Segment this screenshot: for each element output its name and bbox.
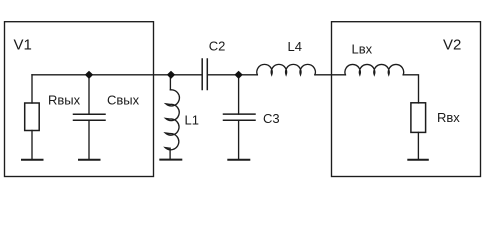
block V2	[332, 22, 481, 177]
resistor Rvx lead bottom	[417, 132, 419, 159]
svg-text:C2: C2	[209, 39, 226, 54]
svg-text:C3: C3	[263, 111, 280, 126]
svg-text:Cвых: Cвых	[107, 92, 140, 107]
capacitor C3 plates	[224, 114, 256, 120]
svg-text:Lвх: Lвх	[352, 42, 373, 57]
inductor L1 coil	[165, 90, 179, 150]
block V1	[5, 22, 154, 177]
inductor L4 coil	[257, 64, 316, 74]
svg-text:L1: L1	[185, 113, 199, 128]
resistor Rvyh body	[25, 103, 40, 131]
svg-text:L4: L4	[288, 39, 302, 54]
ground Rvyh	[22, 159, 43, 161]
resistor Rvyh lead bottom	[31, 131, 33, 160]
capacitor C3 lead top	[238, 75, 240, 114]
ground L1	[160, 159, 181, 161]
ground Cvyh	[79, 159, 100, 161]
wire Lvx to V2 corner	[403, 75, 418, 103]
capacitor Cvyh lead bottom	[88, 120, 90, 160]
capacitor C3 lead bottom	[238, 120, 240, 160]
capacitor Cvyh lead top	[88, 75, 90, 115]
capacitor C2 plates	[202, 59, 207, 90]
resistor Rvyh lead top	[31, 75, 33, 103]
junction node Cvyh tap	[85, 71, 93, 79]
inductor Lvx coil	[345, 64, 404, 74]
capacitor Cvyh plates	[74, 114, 106, 120]
ground Rvx	[408, 159, 428, 161]
ground C3	[228, 159, 249, 161]
svg-text:V2: V2	[443, 37, 461, 54]
resistor Rvx body	[411, 103, 426, 133]
inductor L1 lead top	[169, 75, 171, 90]
svg-text:V1: V1	[14, 37, 32, 54]
wire L4 to Lvx	[315, 74, 346, 76]
junction node L1 tap	[167, 71, 175, 79]
svg-text:Rвых: Rвых	[48, 92, 81, 107]
wire main bus left	[32, 74, 202, 76]
wire C2 to C3 node to L4	[208, 74, 257, 76]
junction node C3 tap	[234, 71, 242, 79]
inductor L1 lead bottom	[169, 148, 171, 159]
svg-text:Rвх: Rвх	[437, 110, 460, 125]
